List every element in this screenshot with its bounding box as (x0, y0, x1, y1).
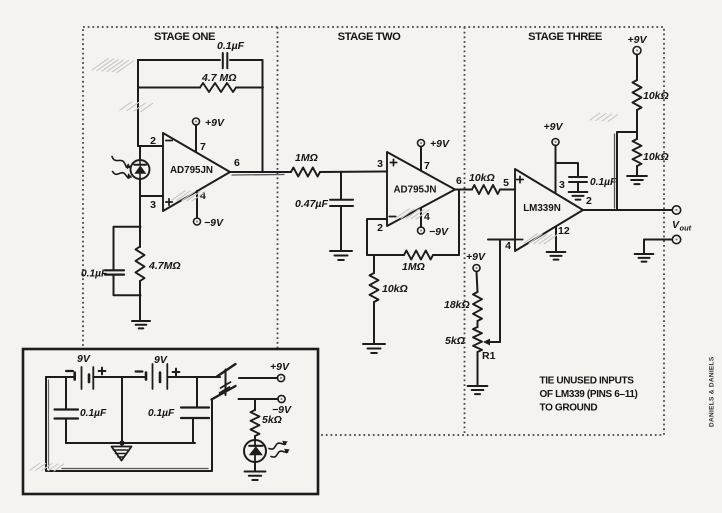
svg-text:10kΩ: 10kΩ (469, 172, 495, 184)
pencil smudge inside U2 (396, 209, 429, 219)
wire node to R/C network (139, 196, 141, 247)
ground (battery midpoint) (112, 447, 132, 461)
capacitor 0.1uF (B2 bypass) branch (196, 377, 198, 407)
ground (stage one) (132, 321, 150, 328)
value label 0.47uF (295, 198, 328, 210)
svg-text:9V: 9V (154, 354, 168, 366)
svg-text:DANIELS & DANIELS: DANIELS & DANIELS (709, 356, 716, 427)
wire feedback top branch left segment (138, 59, 220, 61)
wire 5k to ground (477, 352, 479, 386)
value label 4.7MΩ (vertical) (148, 260, 181, 272)
svg-text:−9V: −9V (204, 217, 224, 229)
dashed divider between STAGE TWO and STAGE THREE (464, 27, 466, 435)
ground (LED) (245, 472, 266, 481)
wire feedback right vertical to output (262, 60, 264, 172)
wire feedback top branch right segment (230, 59, 263, 61)
terminal +9V (stage two) (418, 140, 425, 147)
LED light arrows (269, 441, 290, 457)
LED D2 circle (244, 440, 266, 462)
svg-text:STAGE TWO: STAGE TWO (338, 31, 402, 43)
svg-text:10kΩ: 10kΩ (382, 283, 408, 295)
svg-text:AD795JN: AD795JN (393, 185, 436, 196)
wire -9V outer loop (46, 377, 212, 471)
resistor R 4.7M feedback (stage one) (200, 83, 236, 92)
wire resistor to ground (139, 281, 141, 321)
value label 0.1uF (B2) (148, 408, 175, 419)
terminal -9V (stage one) (194, 218, 201, 225)
photodiode D1 symbol (134, 160, 146, 179)
pin label 6 (U2) (456, 175, 462, 187)
wire photodiode vertical top (139, 146, 141, 160)
minus sign at U2 pin2 (389, 216, 395, 218)
terminal +9V (supply) (277, 374, 284, 381)
label STAGE ONE (154, 31, 216, 43)
label -9V (stage one) (204, 217, 224, 229)
retrace of U1 output wire (232, 174, 284, 177)
svg-text:TO GROUND: TO GROUND (540, 403, 598, 414)
label STAGE TWO (338, 31, 402, 43)
svg-text:+9V: +9V (430, 138, 450, 150)
value label 10kΩ (upper divider) (643, 90, 669, 102)
switch S1 gang link rod (225, 370, 227, 396)
terminal +9V (threshold divider) (473, 265, 480, 272)
wire U1 pin7 to +9V (195, 125, 197, 152)
wire 10k to ground (373, 302, 375, 344)
pin label 2 (U3) (586, 195, 592, 207)
battery B2 symbol (146, 364, 220, 389)
pencil smudge top-left corner (92, 59, 133, 73)
minus sign at U3 pin4 (516, 239, 522, 241)
LED D2 symbol (249, 440, 263, 462)
label +9V (threshold divider) (466, 251, 486, 263)
wire U2 pin2 route (367, 219, 387, 255)
label STAGE THREE (528, 31, 603, 43)
svg-text:18kΩ: 18kΩ (444, 299, 470, 311)
dashed divider between STAGE ONE and STAGE TWO (277, 27, 279, 435)
label -9V (supply) (272, 404, 292, 416)
svg-text:AD795JN: AD795JN (170, 165, 213, 176)
pin label 4 (U2) (424, 211, 430, 223)
svg-text:5kΩ: 5kΩ (445, 335, 465, 347)
svg-text:OF LM339 (PINS 6–11): OF LM339 (PINS 6–11) (540, 389, 638, 400)
retrace of divider tap vertical (614, 134, 616, 208)
svg-text:+9V: +9V (466, 251, 486, 263)
resistor 10k lower (output divider) (633, 139, 642, 166)
value label 0.1uF (stage three) (590, 177, 617, 188)
wire LED to ground (254, 462, 256, 472)
svg-text:1MΩ: 1MΩ (402, 261, 425, 273)
svg-text:0.1µF: 0.1µF (217, 40, 245, 52)
capacitor 0.1uF (B1 bypass) branch (65, 377, 67, 409)
ground rail inside supply box (66, 442, 195, 444)
wire U2 pin7 to +9V (420, 147, 422, 171)
terminal output return (672, 235, 680, 243)
ground (0.47uF) (330, 251, 352, 260)
ground (5k pot) (468, 386, 488, 394)
wire pin4 down to pot wiper (499, 240, 501, 343)
capacitor 0.1uF (B1 bypass) (55, 410, 79, 419)
op-amp U2 AD795JN triangle (387, 152, 455, 226)
pin label 4 (U1) (200, 190, 206, 202)
capacitor 0.1uF (stage three) (569, 177, 587, 182)
label -9V (stage two) (429, 226, 449, 238)
wire cap B1 to rail (65, 419, 67, 444)
light arrows into photodiode (112, 157, 132, 179)
reference label R1 (482, 350, 496, 362)
svg-text:TIE UNUSED INPUTS: TIE UNUSED INPUTS (540, 376, 635, 387)
wire feedback right vertical (stage two) (458, 190, 460, 256)
pin label 3 (U3) (559, 179, 565, 191)
wire feedback bottom (stage two) (367, 254, 459, 256)
op-amp U1 AD795JN triangle (163, 133, 230, 211)
retrace of supply box left wire (48, 380, 50, 468)
pencil smudge battery box lower left (30, 463, 64, 471)
wire wiper arm (483, 339, 500, 346)
svg-text:9V: 9V (77, 353, 91, 365)
label +9V (stage three) (544, 121, 564, 133)
wire 5k to LED (254, 436, 256, 441)
capacitor 0.1uF feedback (stage one) (223, 53, 228, 68)
wire 10k branch top (373, 255, 375, 273)
wire U3 pin3 from +9V (555, 146, 557, 193)
terminal -9V (supply) (278, 395, 285, 402)
resistor 1M input (stage two) (291, 168, 320, 177)
wire U1 output to 1M resistor (230, 171, 291, 173)
photodiode D1 circle (131, 160, 150, 179)
plus sign battery B2 (173, 369, 180, 376)
wire U2 pin4 to -9V (420, 208, 422, 227)
svg-text:4: 4 (505, 240, 511, 252)
value label 1MΩ (input) (295, 152, 318, 164)
battery B1 symbol (46, 367, 146, 389)
plus sign at U3 pin5 (517, 176, 523, 182)
wire U3 output to Vout (583, 209, 672, 211)
ground (stage two) (363, 344, 385, 353)
value label 0.1uF feedback (217, 40, 245, 52)
svg-text:4.7MΩ: 4.7MΩ (148, 260, 181, 272)
svg-text:+9V: +9V (544, 121, 564, 133)
svg-text:0.1µF: 0.1µF (590, 177, 617, 188)
value label 10kΩ (stage two) (382, 283, 408, 295)
plus sign battery B1 (99, 368, 106, 375)
value label 18kΩ (444, 299, 470, 311)
pin label 3 (U1) (150, 199, 156, 211)
terminal +9V (output divider) (633, 47, 641, 55)
value label 4.7 MΩ (201, 72, 236, 84)
pin label 5 (U3) (503, 177, 509, 189)
label Vout (672, 219, 692, 233)
label +9V (stage one) (205, 117, 225, 129)
svg-text:2: 2 (150, 135, 156, 147)
pin label 6 (U1) (234, 157, 240, 169)
label +9V (output divider) (628, 34, 648, 46)
label LM339N (U3) (523, 203, 561, 214)
label 9V (battery B1) (77, 353, 91, 365)
svg-text:LM339N: LM339N (523, 203, 561, 214)
svg-text:12: 12 (558, 225, 570, 237)
resistor 4.7M to ground (stage one) (136, 247, 145, 282)
svg-text:STAGE THREE: STAGE THREE (528, 31, 603, 43)
pencil smudge near stage1 label (120, 102, 153, 112)
wire photodiode to pin3 node (139, 179, 141, 196)
wire to 0.1uF (stage three) (556, 163, 579, 177)
wire cap B2 to rail (192, 418, 194, 443)
pencil smudge right of stage3 (590, 113, 618, 121)
svg-text:0.1µF: 0.1µF (148, 408, 175, 419)
svg-text:5kΩ: 5kΩ (262, 414, 282, 426)
svg-text:0.1µF: 0.1µF (81, 269, 108, 280)
svg-text:STAGE ONE: STAGE ONE (154, 31, 216, 43)
ground (output divider) (627, 176, 647, 184)
svg-text:1MΩ: 1MΩ (295, 152, 318, 164)
svg-text:−9V: −9V (429, 226, 449, 238)
wire U1 pin3 (140, 195, 163, 197)
wire 0.1uF bypass branch bottom (114, 275, 141, 296)
wire switch to +9V terminal (239, 377, 278, 379)
ground (U3 pin12) (547, 252, 566, 260)
label AD795JN (U2) (393, 185, 436, 196)
svg-text:7: 7 (424, 160, 430, 172)
wire 0.1uF bypass branch top (114, 227, 141, 270)
wire -9V to 5k (254, 399, 256, 410)
label 9V (battery B2) (154, 354, 168, 366)
wire feedback left vertical (137, 60, 139, 146)
wire 18k to 5k pot (477, 321, 479, 327)
svg-text:0.1µF: 0.1µF (80, 408, 107, 419)
wire U1 pin4 to -9V (196, 191, 198, 218)
svg-text:10kΩ: 10kΩ (643, 90, 669, 102)
value label 0.1uF (B1) (80, 408, 107, 419)
power supply box (23, 349, 318, 494)
wire divider middle (636, 110, 638, 139)
retrace of supply box bottom rail (62, 468, 208, 470)
pin label 3 (U2) (377, 158, 383, 170)
svg-text:2: 2 (586, 195, 592, 207)
svg-text:0.47µF: 0.47µF (295, 198, 328, 210)
pencil smudge inside U1 (172, 191, 205, 201)
svg-text:3: 3 (559, 179, 565, 191)
svg-text:+9V: +9V (628, 34, 648, 46)
svg-text:3: 3 (377, 158, 383, 170)
value label 1MΩ (feedback) (402, 261, 425, 273)
note text tie unused inputs (540, 376, 638, 414)
label +9V (stage two) (430, 138, 450, 150)
potentiometer R1 5k (473, 327, 482, 352)
wire 0.47uF to ground (340, 206, 342, 251)
pin label 7 (U1) (200, 141, 206, 153)
svg-text:4.7 MΩ: 4.7 MΩ (201, 72, 236, 84)
wire return to ground (644, 240, 672, 255)
svg-text:5: 5 (503, 177, 509, 189)
wire 0.1uF to ground (577, 182, 579, 192)
wire switch to -9V terminal (239, 398, 279, 400)
svg-text:R1: R1 (482, 350, 496, 362)
label +9V (supply) (270, 361, 290, 373)
wire +9V to 10k upper (636, 55, 638, 81)
dashed border around full schematic (83, 27, 664, 435)
minus sign battery B2 (136, 370, 143, 372)
resistor 10k upper (output divider) (633, 80, 642, 110)
terminal Vout (672, 206, 680, 214)
value label 10kΩ (input) (469, 172, 495, 184)
wire +9V to 18k (477, 272, 478, 293)
wire 0.47uF branch (340, 172, 342, 200)
pin label 7 (U2) (424, 160, 430, 172)
minus sign battery B1 (66, 370, 73, 372)
junction dot at supply ground (119, 440, 124, 445)
svg-text:6: 6 (456, 175, 462, 187)
credit DANIELS & DANIELS (709, 356, 716, 427)
pin label 12 (U3) (558, 225, 570, 237)
svg-text:+9V: +9V (270, 361, 290, 373)
value label 5kΩ (LED) (262, 414, 282, 426)
resistor 1M feedback (stage two) (404, 251, 433, 260)
terminal -9V (stage two) (418, 227, 425, 234)
wire 1M to U2 pin3 (320, 171, 387, 174)
svg-text:6: 6 (234, 157, 240, 169)
svg-text:3: 3 (150, 199, 156, 211)
ground (0.1uF stage three) (569, 192, 588, 200)
wire 10k lower to ground (636, 166, 638, 176)
minus sign at U1 pin2 (166, 140, 172, 142)
value label 0.1uF bypass (81, 269, 108, 280)
svg-text:7: 7 (200, 141, 206, 153)
resistor 10k input (stage three) (472, 185, 500, 194)
pin label 4 (U3) (505, 240, 511, 252)
wire U3 pin12 to ground (555, 227, 557, 252)
capacitor 0.47uF (stage two) (330, 200, 353, 206)
pin label 2 (U2) (377, 222, 383, 234)
wire battery midpoint to ground rail (121, 377, 123, 443)
pin label 2 (U1) (150, 135, 156, 147)
switch S1 upper blade (217, 364, 236, 377)
label AD795JN (U1) (170, 165, 213, 176)
wire U3 pin4 (488, 239, 515, 241)
capacitor 0.1uF (B2 bypass) (181, 408, 209, 419)
value label 10kΩ (lower divider) (643, 151, 669, 163)
resistor 10k to ground (stage two) (370, 273, 379, 302)
wire 10k to U3 pin5 (500, 189, 515, 191)
plus sign at U2 pin3 (390, 159, 396, 165)
ground (output return) (635, 254, 654, 262)
resistor 18k (threshold) (473, 292, 482, 321)
svg-text:out: out (680, 224, 692, 233)
value label 5kΩ (445, 335, 465, 347)
svg-text:10kΩ: 10kΩ (643, 151, 669, 163)
plus sign at U1 pin3 (166, 199, 172, 205)
terminal +9V (stage three) (552, 139, 559, 146)
svg-text:2: 2 (377, 222, 383, 234)
pencil smudge inside U3 (524, 234, 557, 244)
switch S1 lower blade (212, 386, 236, 400)
wire U2 output (455, 189, 472, 191)
resistor 5k (LED) (251, 410, 260, 436)
terminal +9V (stage one) (193, 118, 200, 125)
wire divider tap (617, 132, 637, 210)
capacitor 0.1uF bypass (stage one) (105, 270, 124, 274)
svg-text:+9V: +9V (205, 117, 225, 129)
switch S1 gang link ticks (220, 382, 231, 393)
wire feedback resistor branch (138, 87, 263, 89)
comparator U3 LM339N triangle (515, 169, 583, 251)
wire op-amp U1 pin2 (138, 145, 163, 147)
